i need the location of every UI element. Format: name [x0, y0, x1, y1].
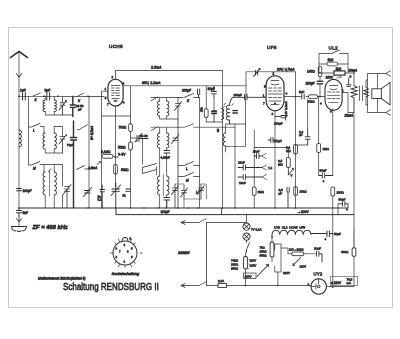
selector B resistor	[270, 242, 274, 257]
trimmer osc1	[175, 102, 182, 209]
wire osc mid link	[206, 121, 222, 123]
speaker cone	[381, 82, 390, 105]
core arrow L6	[162, 174, 164, 196]
svg-text:400Ω: 400Ω	[341, 250, 349, 254]
resistor 1k dark	[334, 71, 345, 75]
wire 250 down	[332, 196, 334, 234]
padder cap row1	[70, 96, 75, 116]
svg-text:50µF: 50µF	[334, 232, 341, 236]
wire osc row2 bottom	[160, 195, 167, 208]
svg-text:110V: 110V	[250, 259, 257, 263]
svg-text:→200V: →200V	[298, 210, 310, 214]
switch S1d osc	[77, 93, 90, 97]
svg-text:50kΩ: 50kΩ	[121, 168, 129, 172]
wire UY2 out	[326, 256, 354, 286]
selector B wires	[271, 237, 273, 262]
svg-text:5nF: 5nF	[23, 211, 29, 215]
resistor 0.1M horizontal	[102, 155, 113, 159]
cap 30pF	[212, 86, 217, 98]
core arrow L4	[48, 169, 51, 197]
wire rail x88	[88, 96, 90, 208]
wire trimmer to switch column	[143, 139, 149, 165]
svg-text:1kΩ: 1kΩ	[336, 67, 342, 71]
svg-text:200pF: 200pF	[182, 89, 191, 93]
resistor 1M right	[317, 144, 321, 153]
cap dark rail235	[233, 111, 237, 113]
svg-text:1MΩ: 1MΩ	[323, 147, 330, 151]
wire anode 85V	[123, 85, 246, 87]
svg-text:Sockelschaltung: Sockelschaltung	[112, 272, 141, 276]
wire 0.5M top	[254, 148, 288, 158]
wire det resistor down	[253, 195, 255, 208]
variable cap C osc	[111, 183, 121, 208]
arrow 4.6mA	[97, 162, 101, 165]
lamp branch wire	[246, 215, 248, 223]
wire rail x28	[28, 96, 30, 127]
wire grid input	[89, 95, 104, 97]
screen bypass symbol	[346, 78, 351, 87]
wire anode UL2 to transformer	[342, 93, 348, 113]
svg-text:UF6: UF6	[267, 45, 277, 50]
svg-text:7,4: 7,4	[268, 166, 273, 170]
selector A wire	[245, 253, 247, 279]
svg-text:650Ω: 650Ω	[231, 267, 239, 271]
svg-text:µF: µF	[78, 108, 82, 112]
switch S3b left pair	[143, 168, 157, 174]
tube UL2 envelope	[325, 79, 342, 110]
coil L4b adjustable	[54, 172, 56, 195]
wire bus2 x338	[337, 204, 339, 215]
wire screen feed left	[246, 72, 274, 97]
trimmer osc2a	[172, 184, 179, 208]
resistor 25k osc	[204, 109, 208, 118]
svg-text:100µF: 100µF	[161, 210, 170, 214]
svg-text:60: 60	[216, 128, 220, 132]
wire osc row2 band	[151, 127, 184, 131]
svg-text:21mA: 21mA	[344, 113, 354, 117]
coil L3a	[43, 133, 45, 149]
resistor 2k	[327, 62, 338, 66]
capacitor 5pF	[47, 93, 50, 100]
svg-text:100pF: 100pF	[234, 93, 243, 97]
selector C resistor	[292, 252, 304, 256]
lamp switch	[247, 240, 250, 252]
coil L3b	[54, 133, 56, 149]
wires row3 bottom	[45, 195, 62, 208]
tube UCH5 envelope	[108, 79, 123, 106]
wire osc rails	[200, 71, 223, 209]
contact a	[262, 154, 267, 159]
svg-text:110V: 110V	[300, 265, 307, 269]
svg-text:M: M	[186, 179, 189, 183]
wire 0.1M links	[102, 116, 116, 208]
svg-text:220V: 220V	[245, 274, 252, 278]
switch S1e osc2	[78, 125, 88, 130]
svg-text:B+ 5,5mA: B+ 5,5mA	[90, 126, 94, 140]
svg-text:20V, 0,7mA: 20V, 0,7mA	[276, 68, 295, 72]
bus B second	[116, 208, 354, 215]
contact c	[262, 175, 267, 180]
IF transformer box	[226, 124, 246, 152]
svg-text:23/8kW: 23/8kW	[177, 251, 190, 255]
switch link vertical	[206, 223, 208, 286]
svg-text:V: V	[291, 174, 293, 178]
resistor det 1M	[252, 187, 256, 195]
svg-text:Schaltung RENDSBURG II: Schaltung RENDSBURG II	[63, 281, 159, 292]
svg-text:ZF = 468 kHz: ZF = 468 kHz	[32, 225, 68, 231]
wire frame bottom	[277, 272, 279, 286]
resistor 0.2M	[294, 145, 298, 155]
mains arrow top	[181, 221, 185, 225]
tube UL2 electrodes	[327, 86, 340, 103]
wire osc row2 links	[160, 127, 167, 176]
resistor 50k cathode	[114, 165, 118, 175]
cap 100uF uf6	[275, 116, 286, 121]
mains arrow bottom	[181, 284, 185, 288]
selector arrow A	[257, 265, 269, 277]
coil L2a	[43, 100, 45, 112]
svg-text:10nF: 10nF	[238, 161, 245, 165]
svg-text:1MΩ: 1MΩ	[258, 190, 265, 194]
wire x235 vertical	[234, 124, 236, 152]
svg-text:110→220Ω: 110→220Ω	[289, 248, 304, 252]
socket pins	[111, 239, 143, 267]
svg-text:MΩ: MΩ	[278, 163, 283, 167]
coil L5a	[158, 101, 160, 116]
cap 2.2nF	[305, 130, 310, 145]
wire row3 top	[40, 165, 63, 187]
cap padding osc	[164, 198, 170, 209]
svg-text:UL2: UL2	[329, 46, 339, 51]
svg-text:UCH5: UCH5	[109, 44, 123, 49]
svg-text:70pF: 70pF	[67, 143, 74, 147]
pot arrow vol	[288, 168, 293, 176]
lamp 1	[243, 223, 250, 230]
coil osc grid B	[226, 97, 233, 124]
wire osc top	[151, 97, 183, 101]
junction dots bus	[18, 207, 296, 209]
junction dots power	[245, 236, 334, 288]
wire osc small links	[175, 184, 206, 208]
switch S3a left pair	[143, 164, 157, 175]
wire x332.8 to UY2	[332, 234, 334, 288]
coil IF primary	[222, 109, 224, 120]
wire osc row1 bottom	[160, 98, 178, 120]
coil L6b	[167, 176, 169, 195]
trimmer at x87	[84, 188, 92, 197]
tap ticks A	[247, 260, 249, 269]
tube UF6 electrodes	[274, 102, 276, 104]
cap osc x214	[212, 112, 217, 123]
cap 50uF bus	[338, 202, 348, 209]
svg-text:+: +	[346, 208, 348, 212]
wire rail x44 row1	[44, 96, 46, 100]
svg-text:mA: mA	[347, 281, 352, 285]
cap 10uF	[317, 251, 323, 262]
antenna A1	[11, 52, 28, 58]
transformer core	[360, 86, 363, 101]
svg-text:5nF: 5nF	[299, 90, 304, 94]
svg-text:0,1µF: 0,1µF	[274, 139, 282, 143]
wire input top	[19, 95, 104, 97]
resistor 20k	[294, 187, 298, 196]
wire x130 to trimmer	[131, 138, 137, 208]
cap 50uF left	[319, 173, 333, 178]
svg-text:10nF: 10nF	[239, 181, 246, 185]
speaker frame	[368, 71, 391, 116]
cap 50uF heater	[327, 231, 333, 237]
cap 0.5uF	[287, 188, 289, 209]
wire left rail x19	[18, 96, 20, 208]
cap 0.1uF	[268, 138, 277, 143]
contact b	[262, 165, 267, 170]
transformer primary zigzag	[351, 86, 357, 113]
tube UY2	[311, 279, 326, 294]
trimmer osc2b	[181, 186, 188, 199]
resistor 50k mid	[129, 142, 133, 150]
cap 100pF grid	[233, 94, 266, 100]
wire UL2 bottom down	[332, 109, 334, 176]
cap 0.25uF osc	[164, 151, 170, 154]
lamp 2	[243, 233, 250, 240]
switch S1f row3b	[77, 166, 90, 170]
svg-text:4,25µF: 4,25µF	[161, 156, 171, 160]
trimmer 25-50	[135, 134, 148, 143]
svg-text:L: L	[186, 167, 188, 171]
svg-text:50µF: 50µF	[339, 198, 346, 202]
wire 21mA down	[348, 113, 354, 249]
svg-text:Meßinstrument 2310/Ω(Multavi I: Meßinstrument 2310/Ω(Multavi II)	[38, 277, 85, 281]
wire mains to selector	[227, 285, 312, 287]
box around output label	[331, 276, 358, 285]
cap 100uF cathode UL2	[317, 81, 322, 84]
svg-text:2kΩ: 2kΩ	[328, 58, 334, 62]
resistor 0.5M	[286, 158, 290, 168]
stub bus link x221	[221, 208, 223, 215]
coil L1 on left rail	[19, 130, 21, 147]
svg-text:25k: 25k	[200, 107, 204, 112]
svg-text:4,6mA: 4,6mA	[88, 166, 97, 170]
switch S2a	[184, 94, 200, 98]
capacitor 5nF ground	[17, 208, 22, 217]
wire x318.7 down	[318, 97, 320, 176]
switch S2c row	[178, 173, 200, 177]
mains wire bottom	[181, 282, 218, 286]
cap 2n at x102	[100, 185, 105, 208]
resistor 250ohm	[331, 187, 335, 196]
cap 10nF c	[238, 175, 262, 180]
pin 2 top riser	[115, 71, 117, 79]
svg-text:220V: 220V	[283, 271, 290, 275]
svg-text:nF: nF	[299, 133, 303, 137]
arrow on antenna lead	[16, 74, 21, 78]
wire cathode down	[115, 106, 117, 187]
pin2 riser UF6	[274, 72, 296, 76]
wire secondary to speaker	[366, 80, 368, 105]
cap at x128	[126, 189, 131, 191]
coil IF secondary	[223, 133, 225, 146]
trimmer osc2c	[198, 184, 205, 199]
resistor 50k coupling	[309, 95, 318, 99]
cap IF top	[212, 111, 217, 113]
tube UCH5 electrodes	[111, 86, 120, 102]
svg-text:+: +	[323, 180, 325, 184]
trimmer osc row2	[172, 135, 180, 144]
wire tone loop	[319, 54, 348, 74]
svg-text:140Ω: 140Ω	[307, 70, 315, 74]
ground symbol	[12, 227, 27, 232]
svg-text:10nF: 10nF	[253, 150, 260, 154]
junction dots UL2	[295, 72, 355, 97]
switch S2b row	[178, 162, 200, 166]
svg-text:2.5mA: 2.5mA	[150, 66, 162, 70]
switch tone	[319, 50, 348, 54]
tube UF6 envelope	[266, 76, 284, 111]
svg-text:0–5V: 0–5V	[118, 153, 126, 157]
svg-text:5,1: 5,1	[98, 198, 102, 202]
arrow coil IF	[223, 106, 225, 108]
coil L5b	[167, 101, 169, 116]
wire x130 down	[130, 116, 132, 142]
svg-text:5pF: 5pF	[45, 89, 51, 93]
wire x354 segments	[353, 230, 355, 248]
coil L2b	[54, 100, 56, 112]
svg-text:85V, 2.2mA: 85V, 2.2mA	[142, 81, 161, 85]
svg-text:7V 0,1A: 7V 0,1A	[251, 228, 262, 232]
capacitor 100pF left rail	[17, 189, 22, 191]
resistor 700ohm upper	[129, 124, 133, 132]
svg-text:UY2: UY2	[314, 272, 323, 277]
coil L4a	[43, 172, 45, 195]
UY2 internals	[311, 279, 320, 289]
svg-text:125V: 125V	[250, 264, 257, 268]
wires row2 links	[45, 127, 62, 154]
svg-text:100pF: 100pF	[23, 189, 32, 193]
wire 2.5mA feed	[116, 70, 223, 72]
svg-text:+: +	[325, 238, 327, 242]
cap 200pF	[198, 89, 200, 98]
arrow AVC	[196, 188, 204, 194]
grid box around UCH5 bottom	[102, 86, 131, 116]
label 220V boxed	[244, 273, 257, 279]
switch S1b row2	[29, 124, 41, 166]
wire 220V box down	[245, 279, 247, 286]
selector A resistor	[244, 257, 248, 270]
arrow 0-5V	[115, 156, 119, 159]
svg-text:650Ω: 650Ω	[260, 254, 268, 258]
cap 10nF a	[254, 154, 261, 159]
wire af vertical x275	[274, 111, 276, 208]
socket circle	[113, 241, 137, 265]
cap 5nF coupling	[302, 94, 304, 99]
switch S1a	[33, 93, 41, 97]
junction dots input	[18, 95, 89, 97]
svg-text:0,1MΩ: 0,1MΩ	[101, 150, 111, 154]
arrow ground lead	[17, 217, 22, 227]
coil L6a	[158, 176, 160, 195]
switch S2row2	[185, 124, 236, 127]
trimmer C row3	[63, 185, 71, 209]
wire plate supply	[319, 73, 354, 86]
wire antenna lead-in	[18, 53, 20, 97]
resistor 140ohm	[318, 67, 322, 77]
wire det rails	[235, 97, 254, 208]
wire cathode x320	[319, 77, 321, 97]
resistor 400ohm	[352, 248, 356, 256]
trimmer C row2	[59, 135, 67, 154]
svg-text:0,2A: 0,2A	[218, 279, 224, 283]
svg-text:MΩ: MΩ	[286, 149, 291, 153]
svg-text:25-50: 25-50	[140, 134, 148, 138]
wire selector C	[288, 253, 316, 255]
svg-text:100µF: 100µF	[306, 82, 315, 86]
arrow 160V	[337, 75, 342, 78]
svg-text:S: S	[350, 75, 352, 79]
svg-text:100µF: 100µF	[274, 122, 283, 126]
svg-text:20kΩ: 20kΩ	[300, 190, 308, 194]
wire to UL2 grid	[318, 96, 325, 98]
selector C arrow	[293, 258, 301, 266]
wire x295 down	[295, 97, 297, 208]
cap 10nF b	[238, 165, 262, 170]
trimmer C row1	[59, 101, 67, 116]
mains wire top	[181, 219, 247, 223]
trimmer screen	[254, 69, 261, 77]
svg-text:50µF: 50µF	[320, 169, 327, 173]
svg-text:0,2V 0,2mA: 0,2V 0,2mA	[284, 101, 288, 117]
svg-text:20mA: 20mA	[348, 69, 358, 73]
svg-text:a 220V: a 220V	[331, 281, 342, 285]
cap row2	[71, 121, 77, 208]
transformer secondary zigzag	[364, 88, 369, 97]
svg-text:µF: µF	[279, 191, 283, 195]
speaker box	[372, 89, 382, 99]
svg-text:UY2 UL2 UCH5 UF6: UY2 UL2 UCH5 UF6	[274, 226, 305, 230]
capacitor 1nF	[23, 93, 26, 100]
arrow coil B	[224, 103, 233, 105]
switch S1c row3	[29, 162, 41, 166]
wire arrow to 288	[281, 248, 288, 254]
socket key bump	[122, 238, 128, 242]
svg-text:M: M	[33, 167, 36, 171]
svg-text:L: L	[33, 129, 35, 133]
svg-text:160V: 160V	[326, 75, 334, 79]
svg-text:30pF: 30pF	[208, 87, 215, 91]
svg-text:1nF: 1nF	[20, 89, 26, 93]
svg-text:250Ω: 250Ω	[337, 191, 345, 195]
svg-text:10µF: 10µF	[314, 247, 321, 251]
fuse	[218, 284, 227, 288]
coil L5c	[158, 133, 160, 148]
wire 2.2nF branch	[296, 99, 308, 145]
coil L5d	[167, 133, 169, 148]
svg-text:50kΩ: 50kΩ	[308, 100, 316, 104]
ground bus main	[19, 207, 348, 209]
wire uf6 anode out	[284, 72, 309, 97]
frame rect ballast	[275, 244, 281, 272]
wire row1 links	[45, 96, 104, 115]
wire row2 top	[40, 127, 44, 134]
heater chain squiggle	[272, 230, 327, 238]
svg-text:700Ω: 700Ω	[119, 126, 127, 130]
svg-text:50kΩ: 50kΩ	[118, 146, 126, 150]
